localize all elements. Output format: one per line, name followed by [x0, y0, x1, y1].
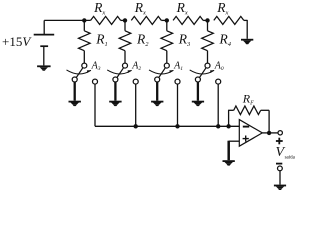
- node 4 (rail junction): [205, 18, 209, 22]
- resistor R1: [79, 20, 108, 63]
- ground (switch A0): [192, 102, 204, 107]
- wire: top supply rail: [44, 19, 90, 21]
- ground (op-amp + input): [223, 161, 235, 166]
- terminal: output -: [278, 166, 283, 171]
- wire: pole to ground (switch A3): [74, 82, 76, 101]
- switch A2: [107, 63, 138, 84]
- ground (switch A2): [109, 102, 121, 107]
- node 2 (rail junction): [123, 18, 127, 22]
- junction: switch wire 4 on bus: [216, 124, 220, 128]
- node 1 (rail junction): [82, 18, 86, 22]
- switch A3: [67, 63, 98, 84]
- wire: [121, 19, 125, 21]
- wire: non-inverting input to ground: [229, 140, 240, 142]
- resistor R4: [202, 20, 232, 63]
- wire: summing bus to op-amp inverting input: [95, 125, 239, 127]
- junction: switch wire 3 on bus: [175, 124, 179, 128]
- switch A0: [190, 63, 221, 84]
- wire: [203, 19, 207, 21]
- label + (output): [276, 138, 283, 145]
- ground (switch A3): [69, 102, 81, 107]
- svg-text:+15V: +15V: [2, 34, 32, 49]
- resistor RF (feedback): [234, 106, 261, 115]
- svg-text:saída: saída: [285, 156, 296, 161]
- resistor Rx3 (top series): [173, 16, 203, 24]
- wire: lower terminal to ground: [279, 171, 281, 185]
- label - (output): [276, 163, 282, 165]
- wire: [161, 19, 167, 21]
- wire: pole to ground (switch A1): [156, 82, 158, 101]
- junction: switch wire 2 on bus: [134, 124, 138, 128]
- resistor Rx1 (top series): [91, 16, 121, 24]
- wire: switch A3 to bus: [94, 84, 96, 127]
- resistor Rx4 (top series): [214, 16, 244, 24]
- wire: switch A1 to bus: [177, 84, 179, 127]
- wire: feedback to output: [261, 109, 269, 111]
- op-amp U1: [239, 120, 262, 147]
- junction: feedback tap: [226, 124, 230, 128]
- ground (switch A1): [151, 102, 163, 107]
- terminal: output +: [278, 131, 282, 135]
- wire: op-amp output: [262, 132, 278, 134]
- switch A1: [149, 63, 180, 84]
- resistor R2: [119, 20, 149, 63]
- ground (rail termination): [241, 40, 253, 45]
- resistor R3: [161, 20, 191, 63]
- junction: output/feedback: [267, 131, 271, 135]
- wire: pole to ground (switch A2): [114, 82, 116, 101]
- node 3 (rail junction): [165, 18, 169, 22]
- battery +15V source: [34, 20, 55, 65]
- wire: pole to ground (switch A0): [197, 82, 199, 101]
- wire: switch A2 to bus: [135, 84, 137, 127]
- wire: rail end to right termination: [244, 19, 247, 21]
- wire: switch A0 to bus: [217, 84, 219, 127]
- ground (battery): [37, 66, 51, 71]
- resistor Rx2 (top series): [131, 16, 161, 24]
- ground (output): [274, 186, 286, 191]
- wire: feedback up-leg: [228, 110, 230, 126]
